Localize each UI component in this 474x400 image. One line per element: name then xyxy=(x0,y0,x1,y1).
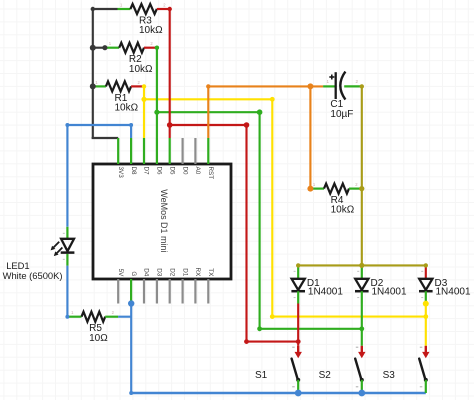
svg-text:WeMos D1 mini: WeMos D1 mini xyxy=(159,189,170,252)
diode D3 1N4001 xyxy=(419,271,471,303)
wire red D1 cathode to S1 xyxy=(297,304,299,346)
pin TX (bottom) xyxy=(207,268,214,303)
pin D4 (bottom) xyxy=(143,268,150,303)
svg-text:S1: S1 xyxy=(255,370,268,381)
svg-text:RX: RX xyxy=(194,268,201,278)
pin G (bottom) xyxy=(130,271,137,303)
pin 5V (bottom) xyxy=(117,269,124,304)
wire orange RST to C1 xyxy=(208,86,323,138)
LED LED1 White (6500K) xyxy=(51,227,75,266)
label LED1 value White (6500K) xyxy=(3,270,63,281)
wire red R3 to D5 xyxy=(169,9,171,138)
label LED1 xyxy=(6,260,29,271)
node junction D3 cathode xyxy=(423,301,429,307)
svg-text:S3: S3 xyxy=(383,370,396,381)
node bend orange RST xyxy=(206,84,210,88)
node bend red lower xyxy=(244,339,249,344)
node junction G pin xyxy=(128,300,134,306)
pin A0 (top) xyxy=(194,138,201,175)
svg-text:D4: D4 xyxy=(143,268,150,277)
wire blue bottom bus xyxy=(131,392,426,395)
wire orange branch to R4 xyxy=(309,86,311,188)
node junction green S2 xyxy=(359,326,364,331)
node junction bus S1 xyxy=(295,390,302,397)
wire red branch vertical xyxy=(245,125,247,342)
node junction olive D2 xyxy=(359,263,364,268)
node junction R2 green start xyxy=(155,46,159,50)
switch S1 xyxy=(255,346,302,393)
pin D7 (top) xyxy=(143,138,150,175)
wire black bus to 3V3 xyxy=(92,137,119,139)
svg-text:RST: RST xyxy=(207,167,214,180)
resistor R1 10k xyxy=(93,80,144,114)
svg-text:1N4001: 1N4001 xyxy=(436,286,471,297)
node junction yellow tee xyxy=(141,97,146,102)
node bend blue LED top xyxy=(65,123,69,127)
node junction green tee xyxy=(154,110,159,115)
node bend olive C1 xyxy=(360,84,364,88)
diode D1 1N4001 xyxy=(291,265,343,303)
svg-text:G: G xyxy=(130,271,137,276)
node junction bus S2 xyxy=(358,390,365,397)
wire black bus vertical xyxy=(92,9,94,138)
pin D2 (bottom) xyxy=(168,268,175,303)
wire black to R3 pin 1 xyxy=(93,8,118,10)
wire green R2 to D6 xyxy=(156,48,158,138)
svg-text:D3: D3 xyxy=(156,268,163,277)
node junction R1 yellow start xyxy=(142,84,146,88)
wire yellow D3 cathode to S3 xyxy=(425,304,427,346)
wire yellow R1 to D7 xyxy=(143,86,145,138)
pin 3V3 (top) xyxy=(117,138,124,178)
node junction orange C1 branch xyxy=(307,83,313,89)
node bend blue D8 xyxy=(129,123,133,127)
svg-text:1N4001: 1N4001 xyxy=(308,286,343,297)
node junction bus R2 xyxy=(90,45,96,51)
pin D0 (top) xyxy=(181,138,188,175)
node bend yellow lower xyxy=(270,314,275,319)
svg-text:D5: D5 xyxy=(168,167,175,176)
svg-text:D2: D2 xyxy=(168,268,175,277)
wire yellow branch horizontal xyxy=(144,98,272,100)
svg-text:5V: 5V xyxy=(117,269,124,278)
capacitor C1 10uF xyxy=(323,72,362,120)
svg-text:10Ω: 10Ω xyxy=(89,333,108,344)
wire blue LED to D8 xyxy=(67,125,131,227)
node junction red tee xyxy=(167,122,173,128)
svg-text:1N4001: 1N4001 xyxy=(372,286,407,297)
resistor R2 10k xyxy=(106,41,157,75)
pin RX (bottom) xyxy=(194,268,201,304)
wire red branch horizontal xyxy=(170,124,247,126)
wire green D2 cathode to S2 xyxy=(361,304,363,346)
wire blue LED cathode to R5 xyxy=(66,266,68,317)
svg-text:A0: A0 xyxy=(194,167,201,175)
pin D3 (bottom) xyxy=(156,268,163,303)
node junction bus top corner xyxy=(91,7,95,11)
wire green lower horizontal to S2 xyxy=(260,328,362,330)
wire red D3 anode drop xyxy=(425,265,427,278)
wire red lower horizontal to S1 xyxy=(247,341,299,343)
resistor R4 10k xyxy=(310,182,361,216)
pin RST (top) xyxy=(207,138,214,179)
resistor R5 10 ohm xyxy=(69,310,119,344)
svg-text:10kΩ: 10kΩ xyxy=(129,64,153,75)
node bend blue R5 xyxy=(65,315,69,319)
svg-text:S2: S2 xyxy=(319,370,332,381)
svg-text:D1: D1 xyxy=(181,268,188,277)
wire yellow branch vertical xyxy=(271,99,273,316)
node junction R2 wire end xyxy=(102,45,107,50)
svg-text:10kΩ: 10kΩ xyxy=(139,25,163,36)
pin D6 (top) xyxy=(156,138,163,175)
svg-text:10µF: 10µF xyxy=(330,109,353,120)
wire green branch vertical xyxy=(259,112,261,329)
node bend yellow upper xyxy=(270,97,275,102)
pin D5 (top) xyxy=(168,138,175,175)
node bend olive D3 xyxy=(424,263,428,267)
node bend olive D1 xyxy=(296,263,300,267)
svg-text:3V3: 3V3 xyxy=(117,167,124,179)
node bend red upper xyxy=(244,122,250,128)
pin D8 (top) xyxy=(130,138,137,175)
resistor R3 10k xyxy=(118,3,170,37)
wire black to R2 pin 1 xyxy=(93,47,107,49)
wire yellow lower horizontal to D3 node xyxy=(272,316,426,318)
node junction bus R1 xyxy=(90,83,96,89)
node junction orange R4 xyxy=(307,186,313,192)
pin D1 (bottom) xyxy=(181,268,188,303)
node junction olive R4 xyxy=(359,186,364,191)
node junction red S1 xyxy=(296,339,301,344)
svg-text:10kΩ: 10kΩ xyxy=(331,205,355,216)
node bend blue bus corner xyxy=(129,391,133,395)
svg-text:D6: D6 xyxy=(156,167,163,176)
svg-text:D0: D0 xyxy=(181,167,188,176)
wire olive diode anode rail xyxy=(298,264,426,266)
op-amp U1 WeMos D1 mini body xyxy=(93,164,231,279)
switch S2 xyxy=(319,346,366,393)
svg-text:White (6500K): White (6500K) xyxy=(3,270,63,281)
switch S3 xyxy=(383,346,430,393)
svg-text:D8: D8 xyxy=(130,167,137,176)
node bend green lower xyxy=(257,326,262,331)
wire blue R5 to G pin xyxy=(118,304,131,394)
node junction yellow S3 xyxy=(423,314,428,319)
svg-text:D7: D7 xyxy=(143,167,150,176)
svg-text:10kΩ: 10kΩ xyxy=(115,103,139,114)
node bend green upper xyxy=(257,109,263,115)
wire olive C1 to R4 to diode rail xyxy=(361,86,363,265)
node junction R3 red corner xyxy=(168,7,172,11)
diode D2 1N4001 xyxy=(355,265,407,303)
svg-text:TX: TX xyxy=(207,268,214,277)
wire green branch horizontal xyxy=(157,111,260,113)
